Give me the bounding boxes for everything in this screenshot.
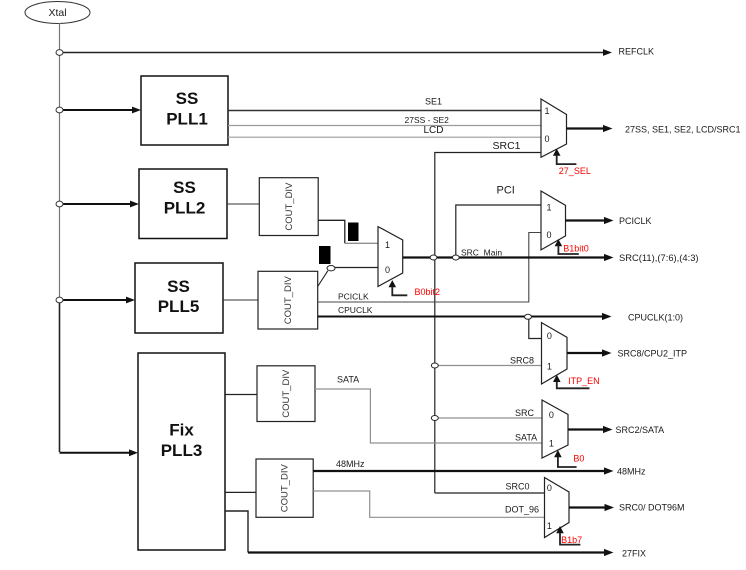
svg-text:0: 0 bbox=[549, 410, 554, 420]
svg-text:REFCLK: REFCLK bbox=[619, 47, 655, 57]
svg-text:0: 0 bbox=[385, 265, 390, 275]
svg-text:SRC_Main: SRC_Main bbox=[461, 248, 502, 258]
svg-text:COUT_DIV: COUT_DIV bbox=[280, 464, 291, 513]
svg-text:PLL1: PLL1 bbox=[166, 110, 208, 129]
svg-text:SS: SS bbox=[167, 277, 190, 296]
svg-text:SS: SS bbox=[173, 178, 196, 197]
svg-text:1: 1 bbox=[547, 361, 552, 371]
svg-text:PCI: PCI bbox=[497, 185, 515, 197]
svg-text:SRC0: SRC0 bbox=[506, 482, 530, 492]
svg-text:0: 0 bbox=[546, 230, 551, 240]
svg-text:0: 0 bbox=[547, 483, 552, 493]
svg-text:B1b7: B1b7 bbox=[561, 535, 582, 545]
svg-text:27_SEL: 27_SEL bbox=[559, 166, 591, 176]
svg-text:SE1: SE1 bbox=[425, 97, 442, 107]
svg-text:SRC0/ DOT96M: SRC0/ DOT96M bbox=[619, 503, 685, 513]
svg-text:SATA: SATA bbox=[337, 375, 359, 385]
svg-text:B1bit0: B1bit0 bbox=[563, 244, 589, 254]
svg-text:27SS - SE2: 27SS - SE2 bbox=[405, 115, 450, 125]
svg-text:0: 0 bbox=[544, 134, 549, 144]
svg-text:CPUCLK(1:0): CPUCLK(1:0) bbox=[628, 313, 683, 323]
svg-text:ITP_EN: ITP_EN bbox=[568, 376, 600, 386]
svg-text:SRC: SRC bbox=[515, 408, 535, 418]
svg-text:B0: B0 bbox=[573, 454, 584, 464]
svg-text:COUT_DIV: COUT_DIV bbox=[283, 276, 294, 325]
svg-text:B0bit2: B0bit2 bbox=[415, 287, 441, 297]
svg-text:LCD: LCD bbox=[424, 125, 444, 136]
svg-text:COUT_DIV: COUT_DIV bbox=[284, 182, 295, 231]
svg-text:PCICLK: PCICLK bbox=[619, 216, 652, 226]
svg-text:PLL2: PLL2 bbox=[164, 199, 206, 218]
svg-text:27SS, SE1, SE2, LCD/SRC1: 27SS, SE1, SE2, LCD/SRC1 bbox=[625, 125, 741, 135]
svg-text:CPUCLK: CPUCLK bbox=[338, 305, 373, 315]
svg-text:48MHz: 48MHz bbox=[617, 467, 646, 477]
svg-text:Fix: Fix bbox=[169, 420, 194, 439]
svg-text:COUT_DIV: COUT_DIV bbox=[281, 369, 292, 418]
svg-text:48MHz: 48MHz bbox=[336, 459, 365, 469]
svg-text:PCICLK: PCICLK bbox=[338, 292, 369, 302]
svg-text:1: 1 bbox=[546, 202, 551, 212]
svg-text:SRC2/SATA: SRC2/SATA bbox=[616, 425, 665, 435]
svg-text:Xtal: Xtal bbox=[48, 7, 66, 19]
svg-text:PLL5: PLL5 bbox=[158, 297, 200, 316]
svg-text:PLL3: PLL3 bbox=[161, 441, 203, 460]
svg-text:27FIX: 27FIX bbox=[622, 549, 646, 559]
svg-text:1: 1 bbox=[385, 240, 390, 250]
svg-text:SATA: SATA bbox=[515, 433, 537, 443]
svg-text:SRC1: SRC1 bbox=[493, 140, 521, 152]
svg-text:1: 1 bbox=[549, 438, 554, 448]
svg-text:1: 1 bbox=[547, 521, 552, 531]
svg-text:SRC(11),(7:6),(4:3): SRC(11),(7:6),(4:3) bbox=[619, 252, 699, 263]
svg-text:SRC8/CPU2_ITP: SRC8/CPU2_ITP bbox=[618, 349, 688, 359]
svg-text:DOT_96: DOT_96 bbox=[505, 505, 539, 515]
svg-text:1: 1 bbox=[544, 106, 549, 116]
svg-text:SRC8: SRC8 bbox=[510, 356, 534, 366]
svg-text:SS: SS bbox=[176, 89, 199, 108]
svg-text:0: 0 bbox=[547, 331, 552, 341]
